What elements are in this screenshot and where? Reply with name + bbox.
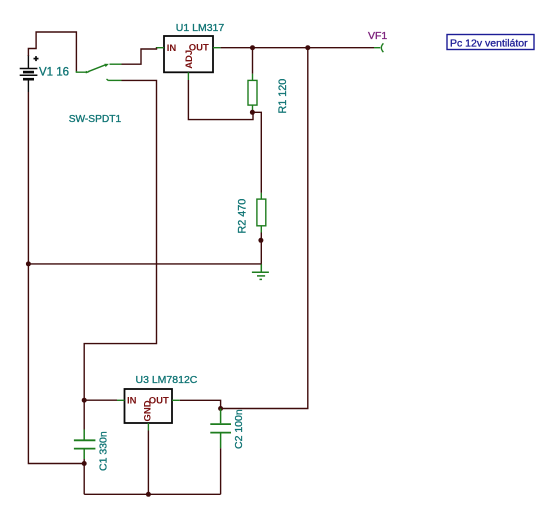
pin stub U1 OUT bbox=[213, 47, 221, 49]
svg-text:R1 120: R1 120 bbox=[277, 79, 289, 114]
terminal VF1 bbox=[381, 43, 383, 52]
svg-text:U3 LM7812C: U3 LM7812C bbox=[136, 374, 198, 386]
wire node to U3 IN bbox=[84, 399, 117, 401]
svg-text:ADJ: ADJ bbox=[184, 50, 195, 69]
svg-text:IN: IN bbox=[127, 396, 137, 407]
wire U1 OUT to terminal VF1 bbox=[221, 47, 374, 49]
node junction top rail at R1 bbox=[250, 45, 255, 50]
wire left rail battery- down and right to C1 bbox=[28, 92, 84, 464]
wire battery+ to switch pole bbox=[28, 32, 76, 72]
wire switch top contact to U1 IN bbox=[122, 48, 159, 64]
wire top rail to R1 bbox=[252, 48, 254, 74]
svg-text:V1 16: V1 16 bbox=[39, 66, 69, 78]
pin stub U3 GND bbox=[147, 423, 149, 431]
wire node to R2 bbox=[252, 112, 261, 193]
wire C1 bottom segment bbox=[83, 459, 85, 464]
wire ground link to left rail bbox=[28, 263, 261, 265]
switch lever arrowheads bbox=[86, 71, 90, 74]
capacitor C2 bbox=[210, 409, 231, 449]
switch SW-SPDT1 bbox=[76, 64, 121, 81]
wire C2 bottom to bottom rail bbox=[220, 448, 222, 494]
pin stub U1 IN bbox=[157, 47, 165, 49]
node junction below R1 bbox=[250, 110, 255, 115]
wire U3 input node down to C1 bbox=[83, 400, 85, 429]
op-amp U3 LM7812C box bbox=[125, 389, 173, 423]
node junction below R2 bbox=[258, 238, 263, 243]
svg-text:U1 LM317: U1 LM317 bbox=[176, 22, 225, 34]
annotation box Pc 12v ventilátor bbox=[447, 35, 534, 50]
battery V1 bbox=[20, 55, 39, 92]
wire switch bottom contact to U3 input node bbox=[84, 80, 156, 400]
node junction U3 input bbox=[82, 398, 87, 403]
svg-text:VF1: VF1 bbox=[368, 30, 387, 42]
svg-text:R2 470: R2 470 bbox=[237, 199, 249, 234]
svg-text:Pc 12v ventilátor: Pc 12v ventilátor bbox=[450, 37, 528, 49]
wire C2 node right and up to top rail bbox=[221, 48, 308, 409]
capacitor C1 bbox=[74, 430, 96, 460]
node junction bottom rail GND bbox=[146, 492, 151, 497]
wire U1 ADJ to node below R1 bbox=[188, 80, 253, 120]
svg-text:C1 330n: C1 330n bbox=[98, 431, 110, 471]
resistor R2 bbox=[257, 193, 266, 233]
resistor R1 bbox=[248, 74, 257, 113]
wire U3 GND drop bbox=[147, 431, 149, 495]
wire bottom rail bbox=[84, 493, 220, 495]
pin stub U1 ADJ bbox=[187, 72, 189, 80]
node junction top rail at right vertical bbox=[305, 45, 310, 50]
svg-text:IN: IN bbox=[167, 43, 177, 54]
pin stub U3 OUT bbox=[172, 399, 180, 401]
ground bbox=[252, 264, 269, 280]
node junction C1 bottom bbox=[82, 461, 87, 466]
op-amp U1 LM317 box bbox=[164, 36, 213, 72]
svg-text:GND: GND bbox=[143, 400, 154, 421]
pin stub U3 IN bbox=[117, 399, 125, 401]
svg-text:C2 100n: C2 100n bbox=[233, 409, 245, 449]
node junction C2 top bbox=[218, 406, 223, 411]
svg-text:SW-SPDT1: SW-SPDT1 bbox=[69, 114, 122, 125]
node junction left rail bbox=[26, 261, 31, 266]
wire U3 OUT to C2 node bbox=[180, 400, 221, 408]
wire R2 to ground bbox=[260, 233, 262, 264]
wire C1 bottom to bottom rail bbox=[83, 464, 85, 495]
